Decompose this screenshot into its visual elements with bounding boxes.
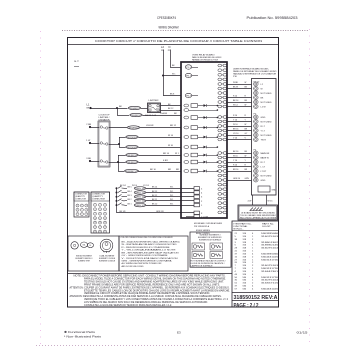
svg-text:PANEL DE INTERFAZ DEL USUARIO: PANEL DE INTERFAZ DEL USUARIO MONT- — [233, 70, 277, 73]
chassis ground symbol — [250, 208, 264, 211]
svg-text:BR 16: BR 16 — [233, 169, 238, 171]
relay board right pin 24 — [218, 183, 222, 186]
surface switch SW2 — [116, 192, 118, 194]
connector splice on branch — [130, 113, 142, 116]
wire branch vertical — [119, 137, 121, 147]
svg-text:NOT USED: NOT USED — [261, 102, 272, 104]
svg-text:PART No.: PART No. — [262, 222, 275, 225]
svg-text:GRN: GRN — [245, 178, 250, 180]
svg-text:GND: GND — [261, 117, 266, 119]
svg-text:W 14: W 14 — [168, 135, 174, 137]
svg-text:BK R 1/4: BK R 1/4 — [145, 115, 156, 117]
svg-text:ELEMENTS DE SURFACE: ELEMENTS DE SURFACE — [199, 239, 222, 242]
svg-text:W 1: W 1 — [170, 187, 173, 189]
svg-text:15: 15 — [221, 135, 223, 137]
svg-text:18: 18 — [221, 157, 223, 159]
wire board to UI connector — [226, 97, 251, 99]
svg-text:BK 16: BK 16 — [233, 151, 238, 153]
relay board connector pin box 7 — [194, 215, 200, 218]
svg-text:26: 26 — [221, 194, 223, 196]
svg-text:ORG 1/5: ORG 1/5 — [135, 188, 146, 190]
svg-text:W 15: W 15 — [268, 201, 274, 203]
UI connector pin — [254, 178, 259, 182]
UI connector pin — [254, 133, 259, 137]
svg-text:ORD(BK)2/4: ORD(BK)2/4 — [127, 162, 138, 164]
relay K8 — [184, 161, 189, 164]
svg-text:BK 8: BK 8 — [170, 94, 174, 96]
relay board right pin 9 — [218, 101, 222, 104]
parts table outline — [232, 221, 279, 307]
svg-text:BK 14: BK 14 — [152, 187, 157, 189]
svg-text:COLOR CODE/CODIGO DE COLOR/COD: COLOR CODE/CODIGO DE COLOR/CODE COULEUR — [121, 237, 173, 239]
wire from pin P8-2 — [192, 95, 198, 97]
perforation dotted line top — [62, 30, 309, 32]
svg-text:W 1: W 1 — [172, 74, 175, 76]
svg-text:NOTE: DISCONNECT POWER BEFORE: NOTE: DISCONNECT POWER BEFORE SERVICING … — [74, 275, 226, 278]
relay K5 — [184, 136, 189, 139]
svg-text:GRN 1/8: GRN 1/8 — [156, 211, 164, 213]
UI connector bottom box — [258, 186, 270, 192]
svg-text:ORG(BR)1/3: ORG(BR)1/3 — [128, 127, 139, 129]
svg-text:ETIQUETTE TENIR LES CABLES LOI: ETIQUETTE TENIR LES CABLES LOIN DE DISPO… — [84, 289, 230, 292]
relay board right pin 26 — [218, 193, 222, 196]
svg-text:BK 10: BK 10 — [152, 203, 157, 205]
svg-text:318550152 REV:A: 318550152 REV:A — [234, 295, 278, 301]
svg-text:316075104: 316075104 — [261, 280, 279, 282]
svg-text:TABLEAU D'INTERFACE DE L'UTILI: TABLEAU D'INTERFACE DE L'UTILISATEUR — [233, 73, 276, 76]
svg-text:W: W — [245, 105, 247, 107]
switch bank common bus — [116, 188, 118, 213]
relay board connector pin box 1 — [194, 187, 200, 190]
svg-text:TESTING SHOULD NOT CAUSE SYSTE: TESTING SHOULD NOT CAUSE SYSTEMS AND WAR… — [84, 280, 224, 283]
svg-text:VERIFIER LE CIRCUIT COMPLET DE: VERIFIER LE CIRCUIT COMPLET DE CHAQUE BO… — [84, 292, 210, 295]
svg-text:N: N — [169, 45, 171, 49]
title bar separator — [68, 44, 279, 46]
wire switch 4 to board — [146, 200, 194, 202]
svg-text:ORD(BK)1/4: ORD(BK)1/4 — [127, 155, 138, 157]
wire board to UI connector — [226, 162, 251, 164]
relay board right pin 1 — [218, 64, 222, 67]
svg-text:E3: E3 — [177, 330, 181, 334]
svg-text:ATTENTION: COUPER LE COURANT A: ATTENTION: COUPER LE COURANT AVANT DE FA… — [70, 286, 230, 289]
connector chart B header — [91, 192, 110, 201]
wire branch upper — [119, 137, 126, 139]
UI connector pin — [254, 129, 259, 133]
svg-text:Y 16: Y 16 — [233, 160, 237, 162]
UI connector J1 outline — [252, 79, 277, 196]
svg-text:BK 12: BK 12 — [152, 195, 157, 197]
svg-text:USER INTERFACE BOARD MOUNT-: USER INTERFACE BOARD MOUNT- — [233, 67, 269, 70]
UI connector ground stub left — [252, 195, 254, 205]
svg-text:25: 25 — [221, 189, 223, 191]
svg-text:BR 14: BR 14 — [163, 153, 170, 155]
svg-text:GY 16: GY 16 — [233, 133, 238, 135]
svg-text:GRN/BK 1/4: GRN/BK 1/4 — [126, 171, 139, 173]
wire limiter out row 2 — [109, 144, 119, 146]
relay board right pin 28 — [218, 202, 222, 205]
svg-text:5303935066: 5303935066 — [261, 253, 279, 255]
svg-text:GRN - GREEN/VERT/VERDE CONTR: GRN - GREEN/VERT/VERDE CONTRARIA — [122, 260, 173, 263]
svg-text:ATENCION: DESCONECTE LA CORRIE: ATENCION: DESCONECTE LA CORRIENTE ANTES … — [70, 295, 222, 298]
svg-text:BK 11: BK 11 — [152, 199, 157, 201]
svg-text:5303935066: 5303935066 — [261, 233, 279, 235]
UI connector pin — [254, 82, 259, 86]
wire upper to board — [139, 137, 182, 139]
svg-text:10: 10 — [221, 106, 223, 108]
svg-text:ORG 1/2: ORG 1/2 — [135, 201, 146, 203]
svg-text:21: 21 — [221, 171, 223, 173]
UI connector pin — [254, 151, 259, 155]
UI connector pin — [254, 169, 259, 173]
svg-text:P/N 318550152-A: P/N 318550152-A — [194, 225, 209, 228]
svg-text:BK 13: BK 13 — [152, 191, 157, 193]
svg-text:ELEMENT THEY: ELEMENT THEY — [78, 261, 91, 263]
svg-text:PARA EL MODEL TILDE A CONNECTO: PARA EL MODEL TILDE A CONNECTOR FOR EACH… — [84, 277, 226, 280]
wire limiter out row 1 — [109, 127, 127, 129]
color code legend outline — [119, 236, 188, 271]
wire branch row 171 — [118, 171, 124, 173]
svg-text:5303131726: 5303131726 — [261, 268, 279, 270]
svg-text:✱ Functional Parts: ✱ Functional Parts — [64, 330, 96, 334]
UI connector pin — [254, 138, 259, 142]
relay K2 — [184, 109, 189, 112]
svg-text:W: W — [245, 156, 247, 158]
svg-text:VERIFIQUE TODO EL CABLEADO Y L: VERIFIQUE TODO EL CABLEADO Y LOS CONECTO… — [84, 298, 229, 301]
common bus wire to board — [117, 212, 195, 214]
dual element symbol — [100, 239, 113, 252]
svg-text:R LT: R LT — [261, 126, 266, 128]
svg-text:CONNECTEUR: CONNECTEUR — [92, 199, 106, 201]
wire from pin P1-1 — [192, 67, 198, 69]
svg-text:ELEMENT DOUBLE: ELEMENT DOUBLE — [99, 261, 116, 263]
svg-text:BK 5: BK 5 — [128, 187, 132, 189]
wire board to UI connector — [226, 84, 251, 86]
svg-text:LAMPES DE SURFACE: LAMPES DE SURFACE — [191, 265, 214, 268]
svg-text:R 16: R 16 — [233, 115, 237, 117]
UI connector pin — [254, 160, 259, 164]
relay board right pin 15 — [218, 134, 222, 137]
svg-text:6: 6 — [222, 88, 223, 90]
svg-text:7: 7 — [222, 93, 223, 95]
indicator element symbol — [210, 243, 223, 250]
wire branch lower — [119, 147, 126, 149]
svg-text:W - WHITE/BLANC/BLANCO UNL: W - WHITE/BLANC/BLANCO UNLESS NOTED — [122, 243, 178, 246]
relay board right pin 3 — [218, 73, 222, 76]
relay board pin P1-1 — [185, 65, 191, 69]
relay board right pin 16 — [218, 138, 222, 141]
wire L2 branch down — [163, 76, 165, 96]
svg-text:NOT USED: NOT USED — [261, 93, 272, 95]
splice lower — [126, 145, 138, 148]
svg-text:R 16: R 16 — [233, 165, 237, 167]
svg-text:5303131726: 5303131726 — [261, 277, 279, 279]
relay board right pin 23 — [218, 179, 222, 182]
relay board right pin 14 — [218, 129, 222, 132]
wire L2 drop — [163, 50, 165, 76]
svg-text:P8-2: P8-2 — [186, 95, 191, 97]
wire lower to board — [139, 147, 182, 149]
main frame border — [68, 38, 279, 308]
surface switch SW4 — [116, 200, 118, 202]
svg-text:01/15: 01/15 — [297, 330, 308, 334]
svg-text:BR: BR — [168, 169, 171, 171]
relay board connector pin box 2 — [194, 191, 200, 194]
wire board to UI connector — [226, 117, 251, 119]
page separator — [232, 300, 279, 302]
svg-text:4 BR: 4 BR — [163, 160, 168, 162]
svg-text:12: 12 — [221, 121, 223, 123]
splice ORG(BR) — [127, 126, 139, 129]
relay board right pin 25 — [218, 188, 222, 191]
svg-text:316075104: 316075104 — [261, 248, 279, 250]
svg-text:BK 12: BK 12 — [168, 108, 173, 110]
svg-text:NOT USED: NOT USED — [261, 121, 272, 123]
wire board to UI connector — [226, 126, 251, 128]
wire L1 to cutout box — [141, 108, 148, 110]
svg-text:HIDDEN BAKE / OVEN RELAY BOARD: HIDDEN BAKE / OVEN RELAY BOARD — [194, 222, 222, 225]
svg-text:Y LT: Y LT — [261, 130, 266, 132]
svg-text:GRN 16: GRN 16 — [233, 178, 240, 180]
wire board to UI connector — [226, 135, 251, 137]
svg-text:Y 16: Y 16 — [233, 120, 237, 122]
relay K7 — [184, 154, 189, 157]
svg-text:17: 17 — [221, 153, 223, 155]
svg-text:BR 12: BR 12 — [170, 125, 177, 127]
svg-text:TW R: TW R — [261, 139, 267, 141]
relay board right pin 8 — [218, 96, 222, 99]
wire limiter out row 3 — [109, 162, 118, 164]
svg-text:W BK: W BK — [233, 82, 239, 84]
element symbols box outline — [68, 236, 119, 271]
svg-text:11: 11 — [221, 117, 223, 119]
limiter internal link 3 — [103, 160, 106, 163]
svg-text:30: 30 — [221, 212, 223, 214]
svg-text:GRY(W)1/4: GRY(W)1/4 — [127, 137, 138, 139]
svg-text:GND: GND — [272, 190, 277, 192]
splice row 155 — [126, 153, 138, 156]
wire board to UI connector — [226, 153, 251, 155]
relay board right pin 21 — [218, 170, 222, 173]
wire board to UI connector — [226, 121, 251, 123]
svg-text:5303131726: 5303131726 — [261, 259, 279, 261]
svg-text:GY - GREY/GRIS/GRIS CONTRAI: GY - GREY/GRIS/GRIS CONTRAIRE — [122, 254, 169, 257]
svg-text:FUNCTIONAL: FUNCTIONAL — [234, 225, 249, 228]
wire branch row 155 — [118, 155, 126, 157]
relay board right pin 27 — [218, 197, 222, 200]
relay board right pin 2 — [218, 69, 222, 72]
relay board U1 outline — [181, 62, 227, 218]
svg-text:W 1: W 1 — [170, 203, 173, 205]
wire switch 1 to board — [146, 188, 194, 190]
svg-text:W: W — [245, 82, 247, 84]
svg-text:3 BK: 3 BK — [86, 158, 91, 160]
svg-text:BK 4: BK 4 — [128, 191, 132, 193]
svg-text:L CT: L CT — [261, 166, 266, 168]
wire switch 3 to board — [146, 196, 194, 198]
svg-text:GRY(W)2/4: GRY(W)2/4 — [127, 147, 138, 149]
wire board to UI connector — [226, 157, 251, 159]
relay board connector pin box 5 — [194, 203, 200, 206]
svg-text:P8-1: P8-1 — [186, 75, 191, 77]
svg-text:318601302: 318601302 — [261, 242, 279, 244]
svg-text:LOS SIMBOLOS DEL MARCO SON SOL: LOS SIMBOLOS DEL MARCO SON SOLO DE REFER… — [84, 301, 208, 304]
svg-text:ALL WIRING SHOWN WITH POWER OF: ALL WIRING SHOWN WITH POWER OFF — [122, 262, 163, 265]
svg-text:W 1: W 1 — [170, 199, 173, 201]
perforation dotted line left — [40, 31, 42, 346]
svg-text:W: W — [245, 124, 247, 126]
svg-text:R - RED/ROUGE/ROJO OTHERWI: R - RED/ROUGE/ROJO OTHERWISE — [122, 247, 171, 249]
svg-text:2: 2 — [222, 70, 223, 72]
svg-text:13: 13 — [221, 126, 223, 128]
connector splice ORG on L1 — [128, 106, 140, 109]
relay board right pin 5 — [218, 83, 222, 86]
svg-text:1 COM: 1 COM — [201, 217, 208, 219]
connector chart B outline — [91, 192, 110, 233]
relay K3 — [184, 116, 189, 119]
svg-text:28: 28 — [221, 203, 223, 205]
svg-text:CONSULTE LA GUIA DE SERVICIO T: CONSULTE LA GUIA DE SERVICIO TECNICO PAR… — [84, 304, 172, 307]
svg-text:29: 29 — [221, 207, 223, 209]
wire row 171 to board — [139, 171, 182, 173]
relay board right pin 7 — [218, 92, 222, 95]
svg-text:ORG(BK)1/1: ORG(BK)1/1 — [129, 108, 140, 110]
parts table header underline — [232, 230, 279, 232]
relay board right pin 12 — [218, 120, 222, 123]
perforation dotted line right — [309, 29, 311, 346]
relay board connector pin box 4 — [194, 199, 200, 202]
wire board to UI connector — [226, 106, 251, 108]
relay board connector pin box 6 — [194, 211, 200, 214]
svg-text:W 1: W 1 — [170, 195, 173, 197]
wire board to UI connector — [226, 139, 251, 141]
cooktop limiter S1 outline — [98, 121, 110, 167]
svg-text:CPES3085KF4: CPES3085KF4 — [157, 16, 176, 20]
UI connector ground stub right — [266, 195, 268, 205]
svg-text:PRINT FRAME SYMBOLS ARE FOR SE: PRINT FRAME SYMBOLS ARE FOR SERVICE PERS… — [84, 283, 220, 286]
svg-text:4: 4 — [222, 79, 223, 81]
svg-text:LT RT: LT RT — [261, 171, 267, 173]
svg-text:3: 3 — [222, 75, 223, 77]
svg-text:BK W: BK W — [233, 87, 238, 89]
UI connector pin — [254, 87, 259, 91]
thermal cutout TCO — [148, 103, 161, 113]
UI connector pin — [254, 100, 259, 104]
wire vertical branch row 3 — [118, 155, 120, 171]
svg-text:23: 23 — [221, 180, 223, 182]
relay board right pin 29 — [218, 206, 222, 209]
svg-text:BAKE W: BAKE W — [261, 156, 270, 159]
wire branch row to relay board — [117, 115, 129, 117]
connector chart A header — [74, 192, 89, 201]
wire board to UI connector — [226, 166, 251, 168]
UI connector pin — [254, 165, 259, 169]
junction limiter row 3 — [117, 161, 119, 163]
relay board right pin 10 — [218, 105, 222, 108]
svg-text:ITEM PART No.: ITEM PART No. — [234, 222, 252, 225]
svg-text:L1A BK: L1A BK — [160, 112, 168, 115]
svg-text:RACCORDEZ L'APPAREIL AU FIL DE: RACCORDEZ L'APPAREIL AU FIL DE TERRE — [240, 217, 276, 220]
connector chart A grid — [76, 204, 79, 207]
wire L2 branch to board — [163, 95, 181, 97]
surface switch SW1 — [116, 187, 118, 189]
relay board connector pin box 3 — [194, 195, 200, 198]
relay K9 — [184, 170, 189, 173]
relay K1 — [184, 104, 189, 107]
limiter internal link 1 — [103, 126, 106, 129]
wire L2 to board — [163, 75, 181, 77]
perforation dotted line bottom — [36, 345, 281, 347]
relay board right pin 6 — [218, 87, 222, 90]
limiter internal link 2 — [103, 142, 106, 145]
wire switch 2 to board — [146, 192, 194, 194]
wire board to UI connector — [226, 102, 251, 104]
svg-text:16: 16 — [221, 139, 223, 141]
svg-text:1: 1 — [222, 65, 223, 67]
indicator element symbol — [210, 252, 223, 259]
wire board to UI connector — [226, 171, 251, 173]
svg-text:BK 14: BK 14 — [233, 100, 239, 102]
junction limiter row 2 — [118, 143, 120, 145]
svg-text:BK 10: BK 10 — [150, 169, 157, 171]
wire TCO to board upper — [161, 105, 182, 107]
splice row 162 — [126, 160, 138, 163]
svg-text:NOT USED: NOT USED — [261, 175, 272, 177]
connector chart B grid — [94, 203, 97, 206]
wire row 162 to board — [139, 162, 182, 164]
relay board pin P8-1 — [185, 73, 191, 77]
svg-text:WIRING DIAGRAM: WIRING DIAGRAM — [159, 26, 179, 30]
svg-text:W 16: W 16 — [233, 156, 238, 158]
relay board right pin 19 — [218, 161, 222, 164]
wire board to UI connector — [226, 130, 251, 132]
splice row 171 — [125, 169, 139, 172]
svg-text:▬▬: ▬▬ — [74, 66, 80, 68]
wire from pin P8-1 — [192, 75, 198, 77]
relay board right pin 18 — [218, 156, 222, 159]
svg-text:9: 9 — [222, 102, 223, 104]
splice upper — [126, 135, 138, 138]
UI connector pin — [254, 96, 259, 100]
relay board right pin 11 — [218, 116, 222, 119]
notes separator line — [68, 273, 233, 275]
wire TCO to board lower — [161, 110, 182, 112]
svg-text:L1B BR: L1B BR — [146, 125, 154, 127]
svg-text:5304431425: 5304431425 — [261, 256, 279, 258]
svg-text:EL: EL — [89, 245, 91, 247]
svg-text:SGL: SGL — [82, 245, 85, 247]
relay board right pin 22 — [218, 174, 222, 177]
svg-text:¹ Non-Illustrated Parts: ¹ Non-Illustrated Parts — [64, 334, 102, 338]
svg-text:PAGE : 2 / 2: PAGE : 2 / 2 — [234, 303, 259, 309]
svg-text:ORG 1/1: ORG 1/1 — [135, 205, 146, 207]
single element symbol — [71, 242, 78, 249]
svg-text:BK 3: BK 3 — [128, 195, 132, 197]
svg-text:BK 1/8: BK 1/8 — [120, 211, 126, 213]
svg-text:AND DOOR UNLOCKED: AND DOOR UNLOCKED — [122, 265, 144, 268]
svg-text:2 BR: 2 BR — [86, 124, 91, 126]
indicator element symbol — [192, 252, 205, 259]
indicator element symbol — [192, 243, 205, 250]
relay board pin P8-2 — [185, 93, 191, 97]
svg-text:14: 14 — [221, 130, 223, 132]
svg-text:BR - BROWN/BRUN/CAFE SAUF I: BR - BROWN/BRUN/CAFE SAUF INDICATION — [122, 251, 180, 254]
wire board to UI connector — [226, 88, 251, 90]
wire switch 5 to board — [146, 205, 194, 207]
parts table footer separator — [232, 292, 279, 294]
relay board right pin 20 — [218, 165, 222, 168]
svg-text:COOKTOP CIRCUIT // CIRCUITO DE: COOKTOP CIRCUIT // CIRCUITO DE PLANCHA D… — [95, 40, 262, 43]
wire branch row 162 — [118, 162, 126, 164]
